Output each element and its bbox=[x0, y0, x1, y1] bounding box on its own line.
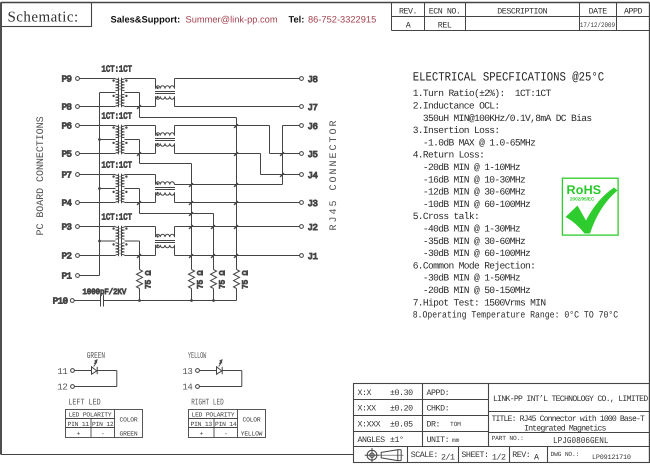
svg-text:mm: mm bbox=[452, 437, 460, 444]
electrical specifications text bbox=[413, 70, 619, 320]
svg-text:PART NO.:: PART NO.: bbox=[492, 435, 524, 442]
svg-text:X:XXX: X:XXX bbox=[358, 420, 381, 429]
svg-text:LPJG0806GENL: LPJG0806GENL bbox=[553, 436, 609, 446]
svg-text:LEFT LED: LEFT LED bbox=[68, 397, 100, 407]
svg-text:LED POLARITY: LED POLARITY bbox=[192, 412, 235, 419]
transformer T4 1CT:1CT bbox=[102, 212, 133, 256]
svg-text:-10dB MIN @ 60-100MHz: -10dB MIN @ 60-100MHz bbox=[413, 199, 530, 210]
svg-text:P3: P3 bbox=[62, 223, 72, 233]
T3 secondary center tap to 75 ohm resistor R3 bbox=[125, 189, 215, 270]
capacitor C1 1000pF/2KV bbox=[83, 288, 127, 307]
svg-text:-20dB MIN @ 1-10MHz: -20dB MIN @ 1-10MHz bbox=[413, 162, 520, 173]
svg-text:+: + bbox=[199, 430, 203, 437]
pin P1 bbox=[62, 272, 100, 282]
svg-text:DESCRIPTION: DESCRIPTION bbox=[497, 7, 547, 16]
svg-text:1CT:1CT: 1CT:1CT bbox=[102, 64, 133, 74]
wire choke CM2 top to J5 bbox=[175, 126, 300, 156]
primary center-tap rail to P1 bbox=[99, 93, 101, 276]
svg-text:75 Ω: 75 Ω bbox=[219, 270, 228, 289]
T4 secondary center tap to 75 ohm resistor R1 bbox=[125, 241, 141, 270]
T1 primary center tap bbox=[100, 92, 116, 94]
svg-text:-20dB MIN @ 50-150MHz: -20dB MIN @ 50-150MHz bbox=[413, 285, 530, 296]
svg-text:J4: J4 bbox=[308, 171, 318, 181]
transformer T3 1CT:1CT bbox=[102, 160, 133, 203]
svg-text:75 Ω: 75 Ω bbox=[197, 270, 206, 289]
svg-text:P9: P9 bbox=[62, 75, 72, 85]
svg-text:4.Return Loss:: 4.Return Loss: bbox=[413, 150, 485, 161]
svg-text:Integrated Magnetics: Integrated Magnetics bbox=[524, 423, 607, 433]
T2 secondary center tap to 75 ohm resistor R2 bbox=[125, 140, 193, 270]
svg-text:-30dB MIN @ 1-50MHz: -30dB MIN @ 1-50MHz bbox=[413, 273, 520, 284]
pin J4 bbox=[300, 171, 318, 181]
svg-text:1/2: 1/2 bbox=[492, 453, 506, 463]
svg-text:ELECTRICAL SPECFICATIONS @25°C: ELECTRICAL SPECFICATIONS @25°C bbox=[413, 70, 605, 84]
svg-text:J1: J1 bbox=[308, 252, 318, 262]
svg-text:75 Ω: 75 Ω bbox=[242, 270, 251, 289]
svg-text:11: 11 bbox=[57, 367, 67, 377]
resistor R3 75 ohm bbox=[211, 270, 228, 302]
svg-text:DR:: DR: bbox=[427, 420, 441, 429]
svg-text:J3: J3 bbox=[308, 199, 318, 209]
svg-text:-40dB MIN @ 1-30MHz: -40dB MIN @ 1-30MHz bbox=[413, 224, 520, 235]
svg-text:1CT:1CT: 1CT:1CT bbox=[102, 212, 133, 222]
svg-text:+: + bbox=[76, 430, 80, 437]
svg-text:DATE: DATE bbox=[589, 7, 608, 16]
svg-text:-12dB MIN @ 30-60MHz: -12dB MIN @ 30-60MHz bbox=[413, 187, 525, 198]
title block texts bbox=[358, 389, 649, 463]
svg-text:3.Insertion Loss:: 3.Insertion Loss: bbox=[413, 125, 500, 136]
svg-text:75 Ω: 75 Ω bbox=[145, 270, 154, 289]
svg-text:GREEN: GREEN bbox=[120, 430, 138, 437]
wire T4 secondary to choke CM4 bbox=[125, 227, 156, 256]
svg-text:APPD:: APPD: bbox=[427, 389, 450, 398]
T2 primary center tap bbox=[98, 138, 115, 141]
pin P7 bbox=[62, 171, 116, 181]
first-angle projection symbol bbox=[365, 448, 404, 462]
wire choke CM4 to J1 bbox=[175, 245, 300, 256]
svg-text:UNIT:: UNIT: bbox=[427, 436, 450, 445]
pin J6 bbox=[300, 122, 318, 132]
wire choke CM3 bottom to J3 bbox=[175, 192, 300, 202]
svg-text:P8: P8 bbox=[62, 103, 72, 113]
svg-text:12: 12 bbox=[57, 382, 67, 392]
svg-text:14: 14 bbox=[182, 382, 192, 392]
pin P5 bbox=[62, 150, 116, 160]
svg-text:Tel:: Tel: bbox=[289, 14, 305, 24]
svg-text:X:X: X:X bbox=[358, 389, 372, 398]
pin P3 bbox=[62, 223, 116, 233]
wire choke CM3 top to J6 bbox=[175, 126, 300, 185]
pin P6 bbox=[62, 122, 116, 132]
svg-text:J8: J8 bbox=[308, 75, 318, 85]
svg-text:P2: P2 bbox=[62, 252, 72, 262]
RoHS compliance logo bbox=[562, 178, 618, 235]
transformer T2 1CT:1CT bbox=[102, 111, 133, 154]
svg-text:Summer@link-pp.com: Summer@link-pp.com bbox=[186, 14, 278, 24]
svg-text:J6: J6 bbox=[308, 122, 318, 132]
svg-text:17/12/2009: 17/12/2009 bbox=[580, 21, 615, 30]
pin J8 bbox=[300, 75, 318, 85]
pin P2 bbox=[62, 252, 116, 262]
svg-text:-35dB MIN @ 30-60MHz: -35dB MIN @ 30-60MHz bbox=[413, 236, 525, 247]
svg-text:COLOR: COLOR bbox=[120, 417, 138, 424]
svg-text:5.Cross talk:: 5.Cross talk: bbox=[413, 211, 479, 222]
svg-text:GREEN: GREEN bbox=[87, 351, 105, 361]
svg-text:TOM: TOM bbox=[450, 421, 461, 428]
wire choke CM1 to J8 bbox=[175, 79, 300, 89]
resistor R1 75 ohm bbox=[137, 270, 154, 302]
title block bbox=[354, 384, 650, 463]
svg-text:SHEET:: SHEET: bbox=[461, 451, 488, 460]
svg-text:P6: P6 bbox=[62, 122, 72, 132]
svg-text:A: A bbox=[534, 454, 539, 463]
wire choke CM2 bottom to J4 bbox=[175, 143, 300, 177]
svg-text:ANGLES: ANGLES bbox=[358, 436, 386, 445]
svg-text:J7: J7 bbox=[308, 103, 318, 113]
pin J1 bbox=[300, 252, 318, 262]
svg-text:PIN 11: PIN 11 bbox=[68, 421, 90, 428]
svg-text:1.Turn Ratio(±2%): 1CT:1CT: 1.Turn Ratio(±2%): 1CT:1CT bbox=[413, 88, 552, 99]
svg-text:REV.: REV. bbox=[399, 7, 417, 16]
svg-text:8.Operating Temperature Range:: 8.Operating Temperature Range: 0°C TO 70… bbox=[413, 310, 619, 321]
svg-text:-: - bbox=[224, 430, 228, 437]
svg-text:X:XX: X:XX bbox=[358, 405, 377, 414]
svg-text:2.Inductance OCL:: 2.Inductance OCL: bbox=[413, 101, 500, 112]
svg-text:LED POLARITY: LED POLARITY bbox=[69, 412, 112, 419]
svg-text:-1.0dB MAX @ 1.0-65MHz: -1.0dB MAX @ 1.0-65MHz bbox=[413, 137, 536, 148]
svg-text:LP09121710: LP09121710 bbox=[592, 454, 631, 462]
svg-text:2/1: 2/1 bbox=[441, 453, 455, 463]
T1 secondary center tap to 75 ohm resistor R4 bbox=[125, 93, 238, 270]
svg-text:RIGHT LED: RIGHT LED bbox=[191, 397, 223, 407]
wire T1 secondary to choke CM1 bbox=[125, 79, 156, 107]
resistor R4 75 ohm bbox=[234, 270, 251, 301]
svg-text:YELLOW: YELLOW bbox=[241, 430, 263, 437]
pin J3 bbox=[300, 199, 318, 209]
svg-text:REL: REL bbox=[438, 21, 452, 30]
resistor R2 75 ohm bbox=[189, 270, 206, 302]
svg-text:1000pF/2KV: 1000pF/2KV bbox=[83, 288, 127, 297]
svg-text:±1°: ±1° bbox=[390, 436, 404, 445]
wire T3 secondary to choke CM3 bbox=[125, 175, 156, 203]
wire choke CM1 to J7 bbox=[175, 96, 300, 106]
svg-text:Sales&Support:: Sales&Support: bbox=[111, 14, 181, 24]
wire T2 secondary to choke CM2 bbox=[125, 126, 156, 154]
svg-text:J5: J5 bbox=[308, 150, 318, 160]
revision table bbox=[392, 3, 650, 31]
svg-text:P1: P1 bbox=[62, 272, 72, 282]
svg-text:±0.20: ±0.20 bbox=[390, 405, 413, 414]
common-mode choke CM3 bbox=[155, 182, 175, 195]
pin P8 bbox=[62, 103, 116, 113]
T4 primary center tap bbox=[98, 240, 115, 243]
svg-text:LINK-PP INT’L TECHNOLOGY CO.,: LINK-PP INT’L TECHNOLOGY CO., LIMITED bbox=[493, 394, 648, 404]
svg-text:±0.05: ±0.05 bbox=[390, 420, 413, 429]
svg-text:A: A bbox=[406, 21, 411, 30]
svg-text:P7: P7 bbox=[62, 171, 72, 181]
pin P10 bbox=[53, 297, 101, 307]
svg-text:APPD: APPD bbox=[624, 7, 643, 16]
svg-text:COLOR: COLOR bbox=[243, 417, 261, 424]
pin J2 bbox=[300, 223, 318, 233]
svg-text:P5: P5 bbox=[62, 150, 72, 160]
svg-text:DWG NO.:: DWG NO.: bbox=[551, 451, 580, 458]
svg-text:86-752-3322915: 86-752-3322915 bbox=[308, 14, 376, 24]
transformer T1 1CT:1CT bbox=[102, 64, 133, 107]
svg-text:6.Common Mode Rejection:: 6.Common Mode Rejection: bbox=[413, 260, 536, 271]
sales and support contact line bbox=[111, 14, 377, 24]
svg-text:PIN 13: PIN 13 bbox=[191, 421, 213, 428]
LEFT LED caption and polarity table bbox=[66, 397, 143, 437]
pin P9 bbox=[62, 75, 116, 85]
GREEN LED indicator circuit pins 11/12 bbox=[57, 351, 116, 392]
pin P4 bbox=[62, 199, 116, 209]
RIGHT LED caption and polarity table bbox=[189, 397, 266, 437]
svg-text:7.Hipot Test: 1500Vrms MIN: 7.Hipot Test: 1500Vrms MIN bbox=[413, 297, 546, 308]
pin J5 bbox=[300, 150, 318, 160]
svg-text:PIN 14: PIN 14 bbox=[215, 421, 237, 428]
Schematic: label box bbox=[1, 3, 92, 27]
svg-text:J2: J2 bbox=[308, 223, 318, 233]
bottom termination rail bbox=[104, 300, 237, 302]
svg-text:1CT:1CT: 1CT:1CT bbox=[102, 111, 133, 121]
svg-text:YELLOW: YELLOW bbox=[188, 351, 207, 361]
svg-text:CHKD:: CHKD: bbox=[427, 405, 450, 414]
svg-text:REV:: REV: bbox=[512, 451, 530, 460]
svg-text:ECN NO.: ECN NO. bbox=[429, 7, 461, 16]
common-mode choke CM1 bbox=[155, 86, 175, 99]
common-mode choke CM4 bbox=[155, 234, 175, 247]
svg-text:13: 13 bbox=[182, 367, 192, 377]
svg-text:-: - bbox=[101, 430, 105, 437]
svg-text:RJ45 CONNECTOR: RJ45 CONNECTOR bbox=[329, 118, 340, 230]
wire choke CM4 to J2 bbox=[175, 227, 300, 238]
YELLOW LED indicator circuit pins 13/14 bbox=[182, 351, 241, 392]
svg-text:P10: P10 bbox=[53, 297, 68, 307]
svg-text:±0.30: ±0.30 bbox=[390, 389, 413, 398]
svg-text:TITLE: RJ45 Connector with 100: TITLE: RJ45 Connector with 1000 Base-T bbox=[492, 414, 645, 424]
svg-text:-16dB MIN @ 10-30MHz: -16dB MIN @ 10-30MHz bbox=[413, 174, 525, 185]
pin J7 bbox=[300, 103, 318, 113]
svg-text:2002/95/EC: 2002/95/EC bbox=[570, 197, 595, 202]
svg-text:PC BOARD CONNECTIONS: PC BOARD CONNECTIONS bbox=[36, 116, 47, 235]
svg-text:SCALE:: SCALE: bbox=[411, 451, 438, 460]
svg-text:Schematic:: Schematic: bbox=[8, 10, 79, 26]
svg-text:-30dB MIN @ 60-100MHz: -30dB MIN @ 60-100MHz bbox=[413, 248, 530, 259]
svg-text:P4: P4 bbox=[62, 199, 72, 209]
svg-text:1CT:1CT: 1CT:1CT bbox=[102, 160, 133, 170]
svg-text:RoHS: RoHS bbox=[567, 183, 602, 197]
T3 primary center tap bbox=[98, 187, 115, 190]
svg-text:PIN 12: PIN 12 bbox=[92, 421, 114, 428]
common-mode choke CM2 bbox=[155, 133, 175, 146]
svg-text:350uH MIN@100KHz/0.1V,8mA DC B: 350uH MIN@100KHz/0.1V,8mA DC Bias bbox=[413, 113, 592, 124]
